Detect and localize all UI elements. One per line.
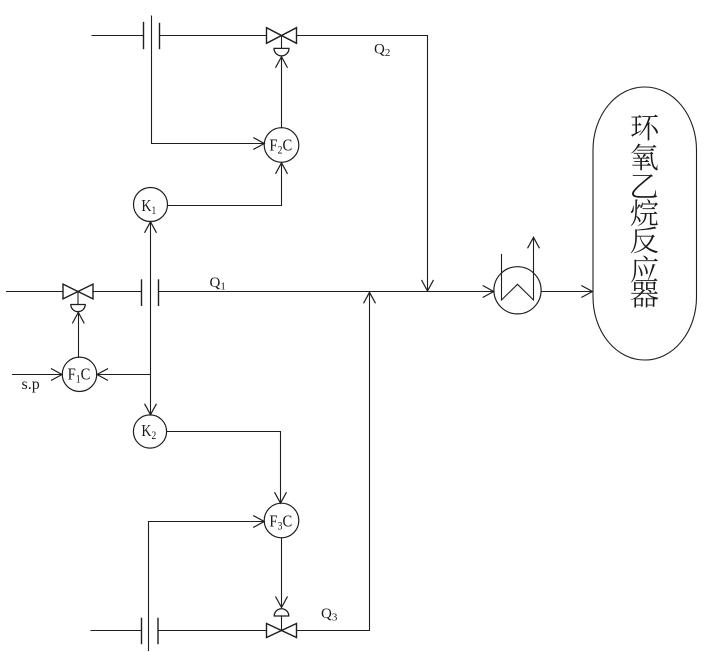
control valve V3 actuator dome — [274, 609, 289, 616]
arrow tap into F2C — [254, 138, 264, 149]
heat exchanger E1 outlet tube — [533, 238, 535, 300]
label F2C — [269, 136, 292, 156]
arrow main pipe into heat exchanger — [483, 286, 494, 297]
control valve V1 body — [63, 284, 93, 299]
wire FE1 tap between K1 and K2 — [150, 222, 152, 414]
wire F1C to V1 actuator — [78, 313, 80, 358]
arrow into V2 actuator — [276, 57, 287, 67]
wire main pipe FE1 to heat exchanger — [159, 291, 494, 293]
reactor label char — [631, 227, 658, 254]
reactor label char — [631, 115, 658, 141]
reactor label char — [631, 199, 658, 226]
reactor label char — [631, 281, 659, 307]
arrow tap into F3C left — [254, 516, 265, 527]
controller F3C circle — [264, 503, 299, 538]
wire top pipe to valve V2 — [160, 35, 267, 37]
wire Q2 pipe valve to down corner — [297, 36, 428, 292]
orifice FE3 right plate — [157, 618, 159, 643]
wire heat exchanger to reactor — [541, 291, 592, 293]
orifice FE1 left plate — [141, 280, 143, 305]
control valve V1 stem — [77, 292, 79, 305]
relay K1 circle — [134, 188, 168, 222]
relay K2 circle — [133, 415, 166, 448]
controller F1C circle — [62, 357, 96, 391]
wire main pipe Q1 left segment — [7, 291, 64, 293]
wire F2C to V2 actuator — [281, 57, 283, 128]
control valve V2 actuator dome — [274, 48, 289, 56]
arrow setpoint into F1C — [52, 369, 63, 380]
wire top feed pipe left segment — [92, 35, 144, 37]
orifice FE2 right plate — [159, 24, 161, 49]
control valve V2 body — [267, 28, 297, 44]
orifice FE3 left plate — [141, 618, 143, 643]
wire setpoint into F1C — [13, 374, 62, 376]
reactor vessel — [593, 87, 697, 360]
wire bottom feed pipe left segment — [91, 630, 142, 632]
orifice FE2 left plate — [143, 23, 145, 49]
wire F3C to V3 actuator — [281, 538, 283, 607]
arrow tap into K1 bottom — [145, 222, 156, 233]
arrow tap into K2 top — [145, 404, 156, 415]
label F1C — [68, 366, 91, 386]
wire FE2 tap down and into F2C — [152, 16, 264, 144]
wire K2 to F3C — [167, 432, 281, 503]
arrow tap into F1C right — [97, 369, 108, 380]
wire Q3 pipe valve to riser corner up to main pipe — [297, 293, 370, 631]
reactor label char — [631, 144, 658, 171]
arrow Q3 into main pipe — [364, 292, 375, 303]
label K1 — [141, 197, 156, 217]
heat exchanger E1 shell circle — [494, 267, 541, 314]
wire K1 to F2C — [168, 163, 282, 205]
heat exchanger E1 inlet tube — [501, 255, 503, 301]
control valve V2 stem — [281, 36, 283, 49]
control valve V1 actuator dome — [71, 305, 85, 312]
arrow Q2 into main pipe — [422, 281, 433, 292]
label F3C — [269, 513, 292, 533]
reactor label 环氧乙烷反应器 — [631, 115, 659, 308]
wire FE3 tap up and into F3C — [149, 522, 264, 651]
wire main pipe valve to FE1 — [93, 291, 142, 293]
orifice FE1 right plate — [158, 280, 160, 305]
reactor label char — [632, 174, 657, 197]
arrow into reactor — [582, 286, 593, 297]
arrow K2 signal into F3C top — [275, 493, 286, 504]
heat exchanger E1 tube chevron — [502, 284, 534, 300]
controller F2C circle — [264, 128, 299, 163]
reactor label char — [631, 255, 658, 282]
wire FE1 tap into F1C — [98, 374, 151, 376]
control valve V3 stem — [281, 616, 283, 631]
arrow into V1 actuator — [73, 312, 84, 323]
arrow heat exchanger vent up — [528, 237, 539, 248]
label K2 — [141, 422, 156, 442]
wire bottom pipe FE3 to valve V3 — [158, 630, 267, 632]
arrow K1 signal into F2C bottom — [276, 163, 287, 174]
control valve V3 body — [267, 624, 297, 638]
svg-text:s.p: s.p — [22, 376, 40, 393]
arrow into V3 actuator — [276, 597, 287, 608]
